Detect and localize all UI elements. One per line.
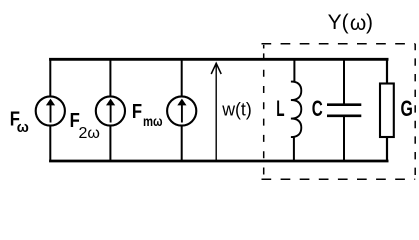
wire branch F_2omega lower [109,125,111,162]
wire branch F_momega lower [181,125,183,162]
dashed box Y(omega) top edge [262,43,416,45]
current source F_momega arrow [177,99,186,123]
svg-text:ω: ω [17,120,29,136]
arrow w(t) head [211,63,221,74]
label Y(omega) [328,11,373,35]
current source F_omega circle [36,96,65,125]
dashed box Y(omega) bottom edge [262,178,416,180]
svg-text:F: F [132,101,142,123]
capacitor C top plate [327,103,361,106]
svg-text:G: G [401,96,413,121]
svg-text:w(t): w(t) [221,99,252,119]
svg-text:2ω: 2ω [79,125,100,142]
wire branch C upper [343,58,345,105]
current source F_omega arrow [46,99,55,123]
wire branch L upper [293,58,295,83]
dashed box Y(omega) left edge [263,44,265,180]
wire top rail [49,58,388,61]
dashed box corner stub top-left [263,45,265,49]
svg-text:Y(: Y( [328,11,349,34]
wire branch F_omega upper [49,58,51,97]
label F_omega [10,109,29,137]
wire branch F_momega upper [181,58,183,97]
wire branch G lower [386,137,388,163]
label F_momega [132,101,163,129]
wire branch F_2omega upper [109,58,111,97]
current source F_2omega arrow [106,99,115,123]
wire branch L lower [293,137,295,163]
current source F_momega circle [167,96,196,125]
label F_2omega [70,110,100,142]
svg-text:ω: ω [350,12,366,35]
conductance G box [380,84,394,138]
capacitor C bottom plate [327,115,361,118]
inductor L coil [291,82,301,138]
arrow w(t) shaft [215,64,217,162]
wire branch C lower [343,117,345,163]
wire branch F_omega lower [49,125,51,162]
svg-text:): ) [366,11,373,34]
svg-text:mω: mω [143,113,163,129]
wire branch G upper [386,58,388,84]
dashed box Y(omega) right edge [414,44,416,180]
current source F_2omega circle [96,96,125,125]
svg-text:L: L [276,96,284,121]
wire bottom rail [49,160,388,163]
svg-text:C: C [312,96,323,121]
